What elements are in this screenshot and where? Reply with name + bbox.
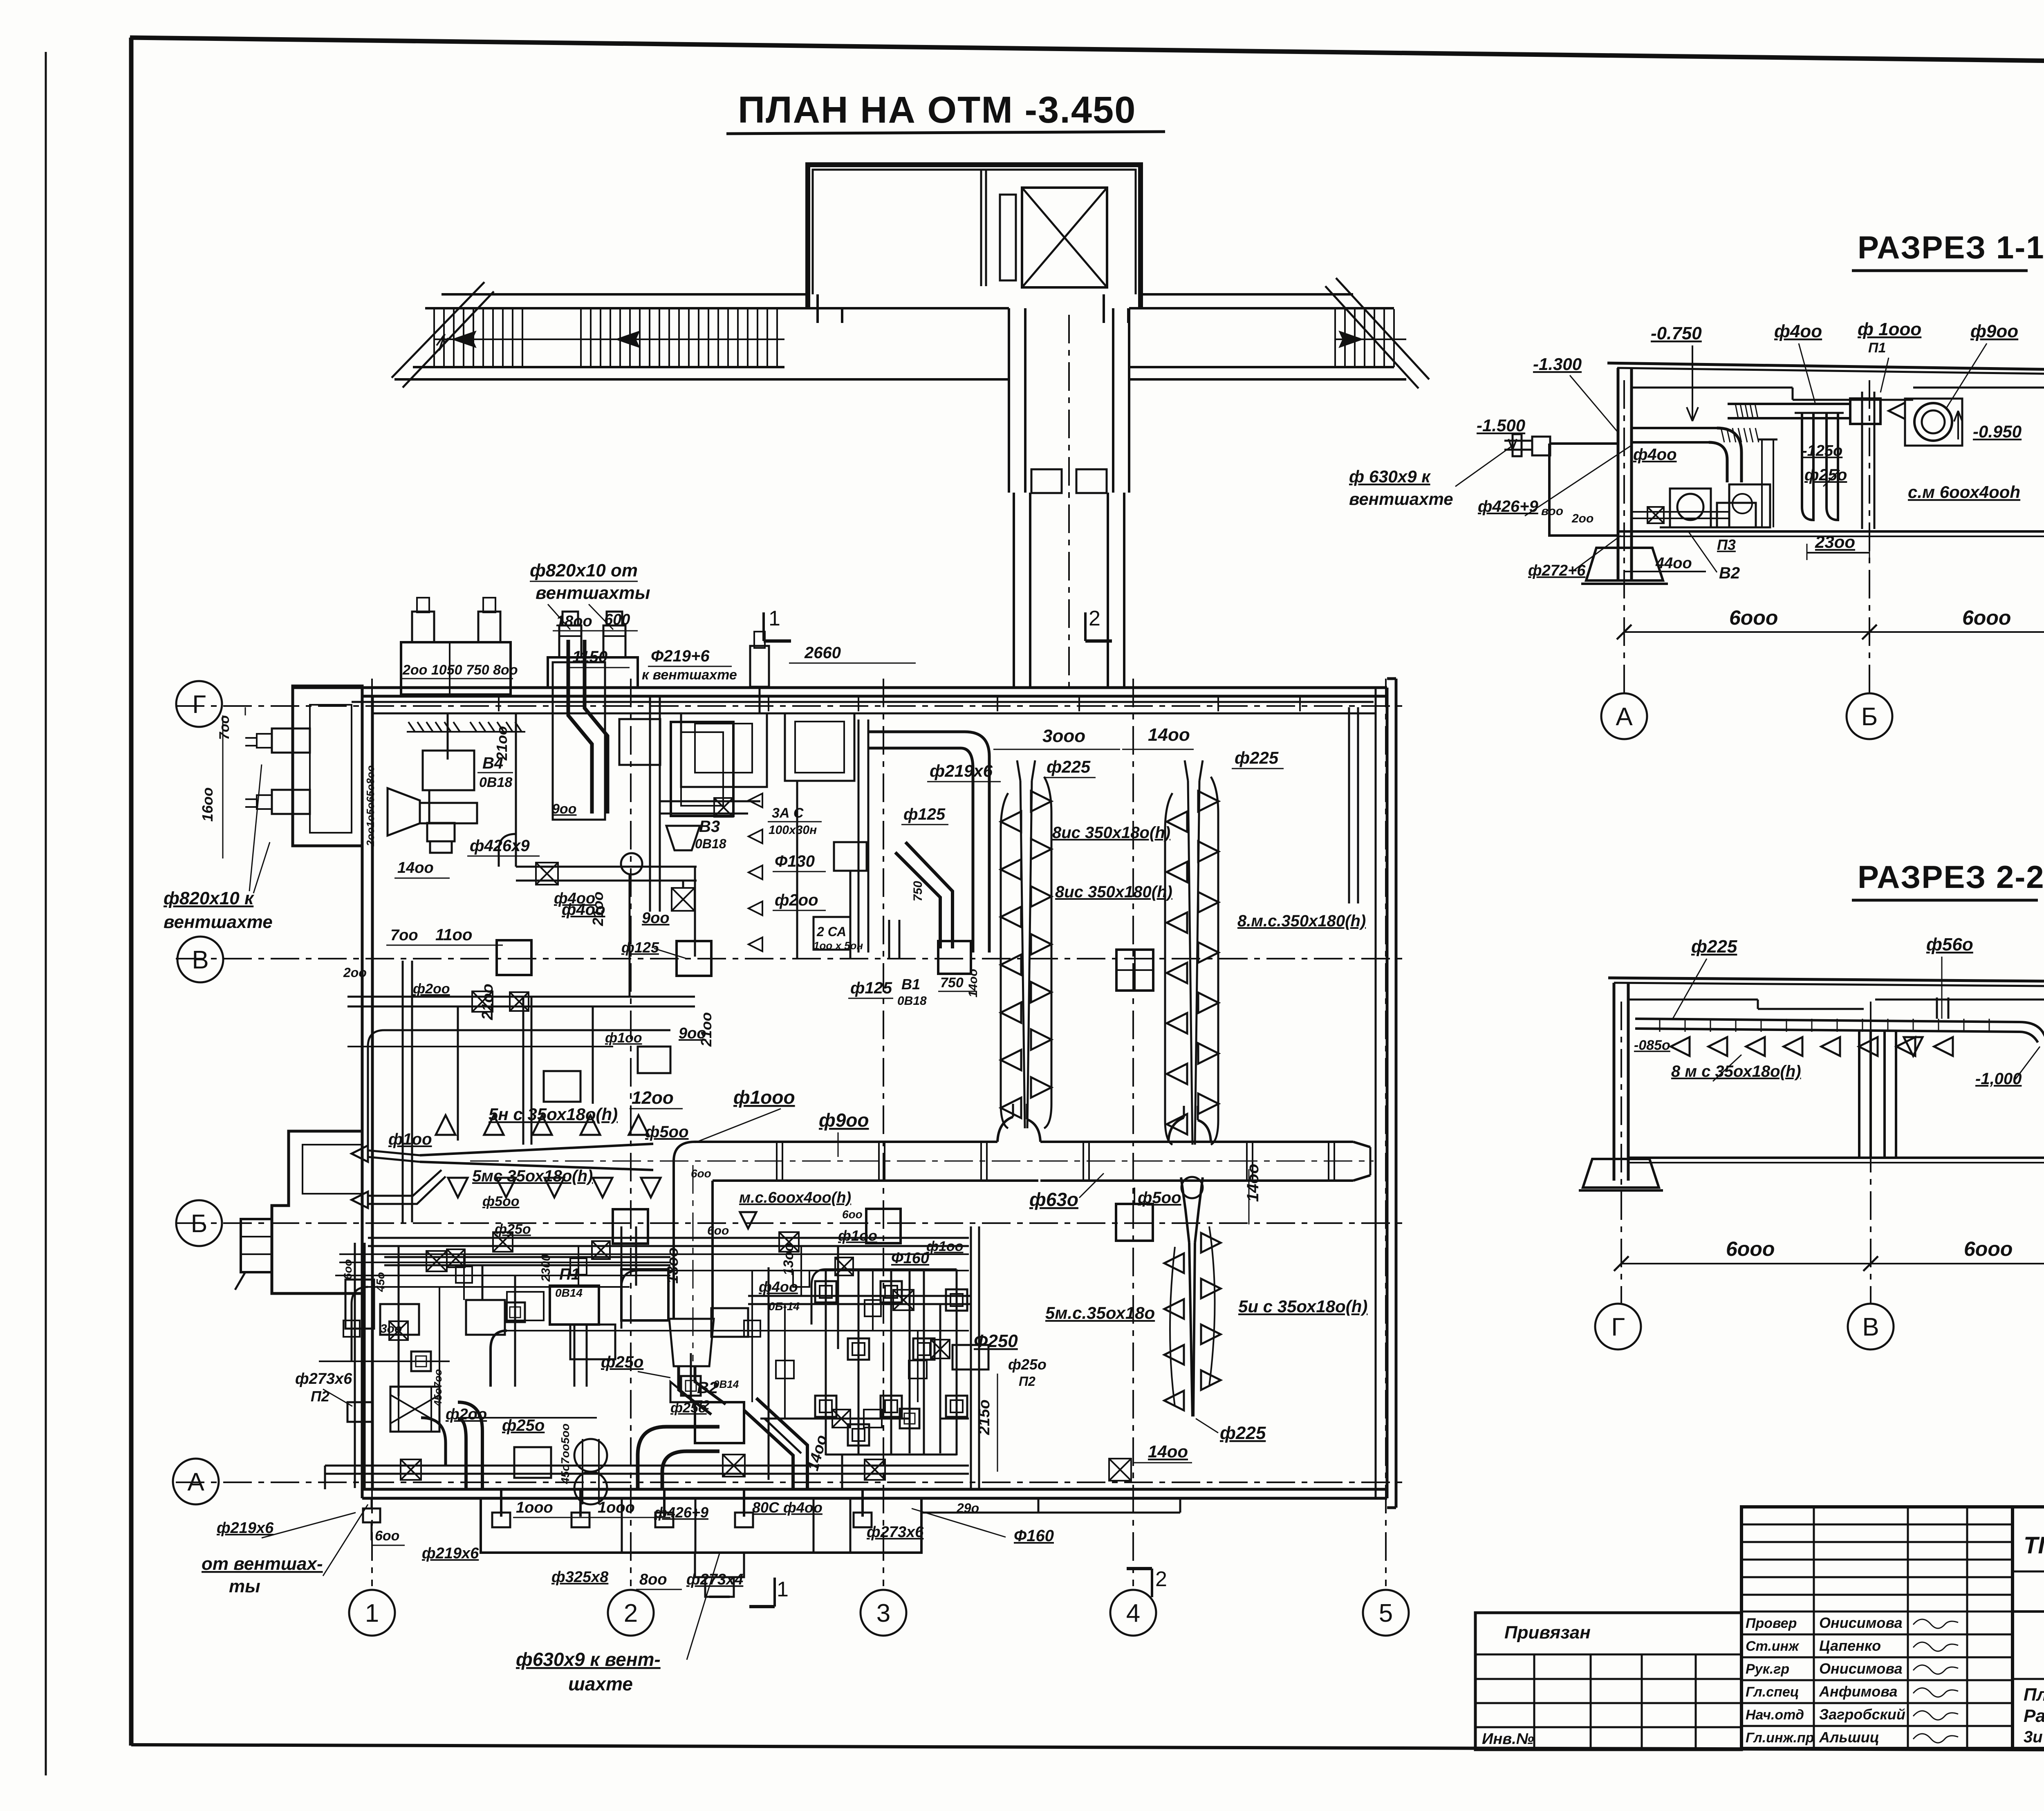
svg-text:6оо: 6оо [842, 1208, 863, 1221]
svg-text:ф9оо: ф9оо [1970, 321, 2018, 341]
tapered supply duct 5мс [420, 1144, 653, 1155]
svg-text:РАЗРЕЗ 2-2: РАЗРЕЗ 2-2 [1858, 859, 2044, 895]
s1 left column [1617, 368, 1620, 579]
svg-text:Цапенко: Цапенко [1819, 1637, 1881, 1654]
long pipe on А axis zone [325, 1465, 969, 1467]
svg-text:Ф219+6: Ф219+6 [651, 647, 710, 665]
svg-text:ф25о: ф25о [601, 1353, 643, 1371]
corridor walls down to plan [1008, 308, 1010, 493]
svg-text:ф4оо: ф4оо [759, 1278, 798, 1295]
svg-text:8оо: 8оо [639, 1571, 667, 1588]
s2 axis verticals [1620, 1002, 1622, 1304]
mini vent box on top wall [401, 642, 511, 695]
s1 dim line 6000s [1624, 631, 2044, 633]
svg-text:А: А [187, 1468, 204, 1496]
s2 floor [1628, 1157, 2044, 1159]
svg-text:ф1оо: ф1оо [838, 1227, 877, 1244]
plan left wall [361, 688, 364, 1498]
s1 pump unit [1670, 489, 1711, 527]
svg-text:ф25о: ф25о [1804, 466, 1847, 484]
section mark 1 bottom [773, 1578, 776, 1607]
svg-text:ф25о: ф25о [670, 1400, 707, 1416]
pipe run В3 [516, 866, 697, 868]
s1 axis lines [1623, 380, 1625, 695]
twin pump circles [574, 1439, 607, 1472]
axis В [176, 958, 1402, 959]
window boxes mid top [619, 719, 660, 765]
twin vent stubs on plan top [548, 657, 638, 688]
svg-text:-1.300: -1.300 [1533, 354, 1582, 374]
svg-text:Провер: Провер [1746, 1616, 1797, 1631]
left stair break diagonal [403, 291, 494, 388]
duct inlet arrows at west wall [352, 1145, 368, 1162]
svg-text:ф219х6: ф219х6 [422, 1545, 479, 1562]
section mark 2 bottom [1151, 1569, 1153, 1597]
big elbow φ426 [638, 1427, 719, 1488]
svg-text:ф125: ф125 [621, 939, 659, 956]
svg-text:2оо: 2оо [343, 965, 367, 980]
plan right wall [1375, 688, 1377, 1498]
duct φ219x6 horizontal run [858, 719, 860, 953]
svg-text:ф225: ф225 [1691, 937, 1737, 957]
s1 fan φ900 [1914, 403, 1952, 441]
svg-text:6ооо: 6ооо [1962, 606, 2011, 629]
s1 duct from wall [1632, 427, 1717, 429]
axis Б west hatch block [241, 1219, 272, 1272]
svg-text:45о7оо: 45о7оо [432, 1369, 444, 1407]
riser duct φ1000 down to П1 [672, 1161, 675, 1319]
П-loops east column pipes [970, 1226, 972, 1488]
svg-text:-125о: -125о [1802, 442, 1842, 459]
svg-text:к вентшахте: к вентшахте [642, 667, 737, 683]
svg-text:6оо: 6оо [375, 1528, 399, 1544]
svg-text:ф5оо: ф5оо [645, 1123, 689, 1141]
svg-text:4: 4 [1126, 1599, 1140, 1627]
upper pipes of lower zone [384, 1256, 670, 1258]
crossing pads on axis Б row [613, 1209, 648, 1244]
lobby partition wall [980, 170, 982, 286]
curved duct to corridor [868, 732, 989, 953]
sheet frame border [130, 38, 2044, 67]
svg-text:вентшахты: вентшахты [536, 583, 650, 603]
П-loop pipe groups [825, 1269, 827, 1455]
svg-text:3ооо: 3ооо [1042, 726, 1085, 746]
svg-text:Г: Г [192, 690, 206, 719]
extra fittings Б-А right [760, 1418, 910, 1420]
svg-text:13оо: 13оо [781, 1243, 796, 1275]
s2 interior columns [1858, 1030, 1860, 1158]
s2 triangles below duct [1671, 1037, 1690, 1056]
svg-text:2оо1о5о65о8оо: 2оо1о5о65о8оо [364, 765, 377, 847]
svg-text:ф272+6: ф272+6 [1528, 562, 1586, 579]
air duct strip B (8мс 350x180) [1165, 793, 1172, 1145]
svg-text:ТП А-II -600-338.86: ТП А-II -600-338.86 [2024, 1532, 2044, 1559]
svg-text:Разрезы 1-1; 2-2.: Разрезы 1-1; 2-2. [2024, 1706, 2044, 1726]
svg-text:ф225: ф225 [1220, 1423, 1266, 1443]
svg-text:14оо: 14оо [1148, 1442, 1188, 1461]
svg-text:2оо: 2оо [1571, 512, 1594, 525]
svg-text:1оо х 5он: 1оо х 5он [814, 939, 863, 952]
svg-text:Ф160: Ф160 [1014, 1527, 1054, 1545]
svg-text:ф820х10 от: ф820х10 от [530, 560, 638, 581]
В3 funnel [666, 826, 700, 850]
svg-text:-0.950: -0.950 [1973, 422, 2022, 441]
s1 dim 2300 [1807, 552, 1869, 554]
svg-text:ф4оо: ф4оо [554, 890, 595, 907]
svg-text:ф25о: ф25о [502, 1417, 545, 1434]
svg-text:-1,000: -1,000 [1975, 1070, 2022, 1088]
title block central grid [1741, 1507, 2013, 1748]
svg-text:ф125: ф125 [850, 979, 892, 997]
svg-text:0В18: 0В18 [897, 994, 927, 1008]
s1 floor line [1618, 530, 2044, 533]
west riser pipes pair [354, 1243, 356, 1488]
svg-text:80С ф4оо: 80С ф4оо [752, 1499, 823, 1516]
svg-text:1150: 1150 [572, 648, 607, 666]
svg-text:Загробский: Загробский [1819, 1706, 1905, 1723]
svg-text:Б: Б [1861, 703, 1878, 731]
svg-text:5мс 35ох18о(h): 5мс 35ох18о(h) [472, 1167, 593, 1185]
svg-text:-1.500: -1.500 [1477, 416, 1525, 435]
svg-text:ф56о: ф56о [1926, 935, 1973, 955]
svg-text:Ф160: Ф160 [891, 1250, 929, 1267]
pipes zone mid right [768, 1267, 770, 1480]
fan В4 box [423, 751, 474, 790]
svg-text:5: 5 [1379, 1599, 1393, 1627]
svg-text:8 м с 35ох18о(h): 8 м с 35ох18о(h) [1671, 1062, 1801, 1080]
s1 west annex [1549, 444, 1618, 536]
strip A riser elbow to main duct [997, 1117, 1013, 1142]
svg-text:2300: 2300 [539, 1254, 553, 1282]
duct crossing pad on axis 4 [1116, 1204, 1153, 1241]
left attachment table [1475, 1613, 1741, 1750]
s2 riser stubs φ560 [1936, 997, 1938, 1019]
svg-text:Ф250: Ф250 [974, 1331, 1018, 1351]
svg-text:ф 630х9 к: ф 630х9 к [1349, 467, 1431, 486]
svg-text:45о: 45о [374, 1272, 387, 1292]
svg-text:ф 1ооо: ф 1ооо [1858, 319, 1921, 339]
svg-text:6ооо: 6ооо [1726, 1237, 1775, 1260]
svg-text:9оо: 9оо [552, 801, 576, 817]
svg-text:ф225: ф225 [1047, 757, 1091, 776]
s2 axis circles [1595, 1304, 1641, 1349]
svg-text:45о7оо5оо: 45о7оо5оо [559, 1423, 572, 1484]
section mark 2 top [1084, 612, 1087, 641]
2СА box [814, 917, 850, 950]
lobby inner walls [813, 170, 1136, 294]
svg-text:18оо: 18оо [556, 613, 592, 630]
В2 fan [695, 1402, 744, 1443]
svg-text:Ф130: Ф130 [775, 852, 815, 870]
svg-text:14оо: 14оо [1148, 725, 1190, 745]
svg-text:21оо: 21оо [698, 1012, 715, 1047]
svg-text:В1: В1 [901, 976, 920, 993]
svg-text:8ис 350х180(h): 8ис 350х180(h) [1055, 883, 1172, 901]
small arrows column [749, 793, 762, 807]
diagonal duct В2 [744, 1410, 793, 1488]
svg-text:Привязан: Привязан [1504, 1623, 1591, 1643]
svg-text:ф63о: ф63о [1029, 1189, 1078, 1210]
mixing box [514, 1447, 551, 1478]
svg-text:ф5оо: ф5оо [482, 1194, 520, 1209]
svg-text:12оо: 12оо [632, 1088, 674, 1108]
diagonal duct [905, 842, 953, 948]
svg-text:ф4оо: ф4оо [1774, 321, 1822, 341]
svg-text:6оо: 6оо [707, 1224, 729, 1237]
svg-text:шахте: шахте [568, 1673, 633, 1694]
s1 ceiling slab steps [1632, 387, 1793, 389]
svg-text:14оо: 14оо [1244, 1164, 1262, 1202]
vertical riser х1543 pipes [621, 1226, 623, 1286]
svg-text:Г: Г [1611, 1313, 1625, 1341]
s1 extra equipment bay А-Б [1761, 439, 1763, 527]
corridor beam pads [1031, 469, 1062, 493]
axis Б west annex [272, 1131, 362, 1293]
svg-text:Онисимова: Онисимова [1819, 1614, 1903, 1631]
right stair flight treads [1334, 309, 1336, 367]
svg-text:6оо: 6оо [341, 1259, 354, 1280]
pipes along В zone [347, 996, 695, 998]
svg-text:18оо: 18оо [664, 1247, 681, 1284]
svg-text:РАЗРЕЗ 1-1: РАЗРЕЗ 1-1 [1858, 229, 2044, 265]
svg-text:ф4оо: ф4оо [1633, 446, 1677, 464]
heater block [390, 1387, 439, 1432]
svg-text:ф630х9 к вент-: ф630х9 к вент- [516, 1649, 661, 1670]
svg-text:ф1оо: ф1оо [605, 1030, 642, 1046]
svg-text:6оо: 6оо [691, 1167, 711, 1180]
svg-text:ф219х6: ф219х6 [217, 1520, 274, 1537]
svg-text:11оо: 11оо [435, 926, 472, 944]
s1 U pipes φ250 [1802, 413, 1813, 520]
svg-text:А: А [1616, 703, 1633, 731]
svg-text:1: 1 [777, 1578, 789, 1601]
vertical pipe pair near right wall [1348, 707, 1350, 903]
extra pipes В-Б left [384, 1029, 670, 1031]
s1 left foundation [1586, 548, 1663, 581]
room partitions upper zone [649, 696, 651, 912]
svg-text:Б: Б [191, 1210, 208, 1238]
svg-text:8.м.с.350х180(h): 8.м.с.350х180(h) [1237, 912, 1366, 930]
svg-text:ф25о: ф25о [1008, 1356, 1047, 1373]
svg-text:1ооо: 1ооо [598, 1499, 635, 1516]
svg-text:Альшиц: Альшиц [1819, 1729, 1879, 1746]
svg-text:П2: П2 [311, 1388, 329, 1405]
svg-text:ф1ооо: ф1ооо [733, 1087, 795, 1108]
valve cross on А row [723, 1455, 745, 1477]
annex pipe stubs [272, 728, 310, 753]
s2 left column [1613, 983, 1616, 1181]
s2 under-ceiling duct left [1635, 1019, 2019, 1022]
svg-text:8ис 350х18о(h): 8ис 350х18о(h) [1052, 824, 1170, 842]
svg-text:0В14: 0В14 [555, 1287, 583, 1299]
svg-text:Гл.инж.пр: Гл.инж.пр [1746, 1730, 1814, 1746]
svg-text:3А С: 3А С [772, 805, 804, 821]
svg-text:ф1оо: ф1оо [926, 1239, 964, 1254]
svg-text:14оо: 14оо [966, 969, 980, 997]
В4 suction funnel [388, 788, 420, 836]
А axis pipe row [324, 1466, 326, 1489]
svg-text:П1: П1 [1868, 340, 1886, 356]
svg-text:0В14: 0В14 [713, 1378, 739, 1390]
svg-text:П3: П3 [1717, 536, 1736, 553]
svg-text:ф820х10 к: ф820х10 к [164, 888, 255, 908]
svg-text:5и с 35ох18о(h): 5и с 35ох18о(h) [1238, 1297, 1367, 1316]
svg-text:ф125: ф125 [903, 805, 946, 823]
svg-text:-0.750: -0.750 [1651, 323, 1702, 343]
elevator door recess [1000, 195, 1016, 280]
svg-text:П2: П2 [1019, 1374, 1035, 1389]
svg-text:План на отм. -3.450: План на отм. -3.450 [2024, 1685, 2044, 1705]
svg-text:В3: В3 [699, 818, 720, 836]
stairwell lobby outer walls [808, 165, 1141, 308]
s1 dim 1400 [1624, 571, 1706, 572]
stair walk line with arrows [434, 338, 784, 340]
svg-text:ф219х6: ф219х6 [930, 761, 993, 780]
svg-text:750: 750 [911, 881, 925, 901]
svg-text:Онисимова: Онисимова [1819, 1660, 1903, 1677]
stair lower wall band [413, 366, 784, 368]
svg-text:6ооо: 6ооо [1964, 1237, 2013, 1260]
svg-text:Ст.инж: Ст.инж [1746, 1638, 1800, 1654]
svg-text:14оо: 14оо [397, 859, 434, 876]
main duct φ900/φ630 [695, 1141, 997, 1143]
svg-text:ф225: ф225 [1235, 748, 1279, 767]
svg-text:100х30н: 100х30н [769, 823, 817, 837]
svg-text:7оо: 7оо [390, 927, 418, 944]
svg-text:9оо: 9оо [642, 910, 670, 927]
B1 pipe pair [888, 920, 890, 959]
s1 axis circles [1601, 693, 1647, 739]
svg-text:0В18: 0В18 [479, 775, 512, 790]
svg-text:ф325х8: ф325х8 [551, 1569, 609, 1586]
svg-text:ты: ты [229, 1576, 260, 1596]
axis Г [176, 705, 1402, 707]
svg-text:29о: 29о [956, 1501, 979, 1515]
svg-text:ф9оо: ф9оо [819, 1109, 869, 1131]
corridor upper wall band [442, 293, 808, 296]
axis 1 [371, 679, 373, 1586]
svg-text:2: 2 [624, 1599, 638, 1627]
svg-text:2 СА: 2 СА [816, 924, 846, 939]
svg-text:2: 2 [1089, 607, 1100, 630]
s1 annex inlet pipe [1532, 437, 1550, 455]
svg-text:воо: воо [1541, 504, 1563, 518]
corridor centreline [1068, 315, 1070, 687]
svg-text:23оо: 23оо [1815, 532, 1855, 551]
axis А [176, 1482, 1402, 1483]
svg-text:В2: В2 [1719, 564, 1740, 582]
svg-text:Анфимова: Анфимова [1819, 1683, 1898, 1700]
svg-text:В: В [192, 946, 208, 974]
svg-text:5н с 35ох18о(h): 5н с 35ох18о(h) [489, 1105, 618, 1124]
svg-text:1: 1 [365, 1599, 379, 1627]
axis 3 [883, 679, 884, 1586]
extra pipes Г-В zone [515, 713, 517, 867]
svg-text:ф273х6: ф273х6 [295, 1370, 352, 1387]
svg-text:44оо: 44оо [1655, 555, 1692, 572]
axis Б [176, 1222, 1402, 1224]
svg-text:Инв.№: Инв.№ [1482, 1730, 1534, 1748]
П1 unit [550, 1286, 599, 1325]
svg-text:ПЛАН НА ОТМ -3.450: ПЛАН НА ОТМ -3.450 [738, 89, 1136, 131]
svg-text:2660: 2660 [804, 644, 841, 662]
right stair lower band [1129, 366, 1394, 368]
left stair flight treads [433, 309, 435, 367]
pipe drop stubs to foundation [500, 1488, 502, 1517]
svg-text:0В18: 0В18 [695, 836, 726, 851]
plan bottom wall [362, 1488, 1387, 1491]
air duct strip A (8мс 350x180) [1001, 793, 1008, 1128]
section mark 1 top [762, 612, 765, 641]
svg-text:от вентшах-: от вентшах- [202, 1554, 323, 1574]
s1 ceiling line [1607, 363, 2044, 374]
s2 ceiling slab [1628, 999, 1758, 1001]
fold line left margin [45, 52, 47, 1775]
axis 5 [1385, 679, 1387, 1586]
s2 dim line [1621, 1263, 2044, 1264]
right stair break diagonal [1325, 286, 1419, 388]
svg-text:1: 1 [769, 607, 780, 630]
svg-text:16оо: 16оо [199, 787, 216, 822]
svg-text:2: 2 [1155, 1567, 1167, 1591]
svg-text:6ооо: 6ооо [1729, 606, 1778, 629]
svg-text:Гл.спец: Гл.спец [1746, 1684, 1799, 1700]
svg-text:21оо: 21оо [479, 984, 496, 1020]
svg-text:2оо 1050 750 8оо: 2оо 1050 750 8оо [402, 662, 518, 678]
pipe drops near В axis [402, 961, 404, 1222]
s2 ceiling [1608, 978, 2044, 984]
svg-text:П1: П1 [559, 1265, 580, 1283]
В axis crossing pads [1116, 950, 1153, 991]
west annex block (vent chamber) [293, 686, 362, 846]
svg-text:600: 600 [604, 611, 630, 628]
foundation pit band below wall [921, 1512, 1180, 1514]
svg-text:5м.с.35ох18о: 5м.с.35ох18о [1045, 1303, 1155, 1322]
equipment shelf right of partition [785, 713, 854, 781]
svg-text:Нач.отд: Нач.отд [1746, 1707, 1804, 1723]
plan top wall [293, 686, 1387, 689]
mid stair flight treads [580, 309, 582, 367]
axis 2 [630, 679, 632, 1586]
svg-text:ф1оо: ф1оо [388, 1130, 432, 1148]
dense pipe lattice Б..А [339, 1253, 969, 1255]
elbow duct down-left [458, 1402, 482, 1488]
heating main along axis Г [352, 701, 1374, 703]
П1 transition [669, 1319, 714, 1366]
svg-text:с.м 6оох4ооh: с.м 6оох4ооh [1908, 482, 2020, 502]
svg-text:ф2оо: ф2оо [413, 981, 450, 997]
svg-text:ф273х6: ф273х6 [867, 1524, 924, 1541]
svg-text:3: 3 [876, 1599, 890, 1627]
elevator car with X [1022, 188, 1107, 287]
svg-text:Рук.гр: Рук.гр [1746, 1661, 1789, 1677]
axis 4 [1132, 679, 1134, 1586]
s1 riser at Б [1861, 392, 1863, 529]
strip C below Б (5мс) [1181, 1177, 1189, 1243]
svg-text:В: В [1862, 1313, 1879, 1341]
s1 duct φ400 [1728, 403, 1850, 405]
svg-text:вентшахте: вентшахте [1349, 489, 1453, 509]
title block right box [2013, 1507, 2044, 1748]
bottom vent stub [695, 1553, 744, 1577]
vent riser at grid 3 [750, 646, 769, 687]
vertical S duct φ219 [568, 640, 592, 814]
big duct П1 down from Б [621, 1269, 668, 1320]
svg-text:7оо: 7оо [217, 715, 232, 740]
svg-text:-085о: -085о [1634, 1038, 1670, 1053]
svg-text:3и 4климатические зоны: 3и 4климатические зоны [2024, 1728, 2044, 1746]
svg-text:вентшахте: вентшахте [164, 912, 273, 932]
